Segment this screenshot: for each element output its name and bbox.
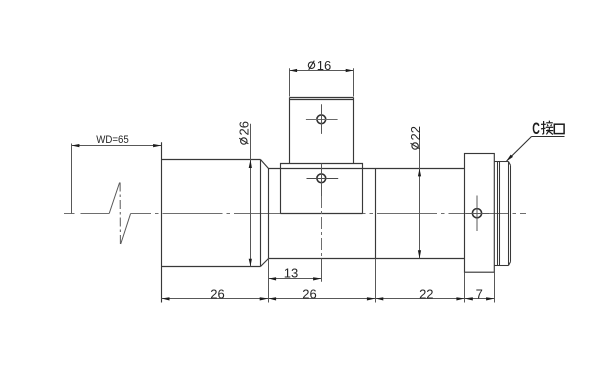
optical axis centerline main: [131, 213, 526, 215]
ring chamfer top: [509, 162, 511, 166]
extension line at x=494.5: [494, 273, 496, 303]
svg-text:16: 16: [317, 58, 331, 73]
mid+rear body outline: [269, 169, 465, 259]
label C-mount leader: [507, 137, 565, 162]
joint line mid/rear: [375, 169, 377, 259]
svg-text:22: 22: [419, 286, 433, 301]
svg-text:13: 13: [284, 266, 298, 281]
ring chamfer bottom: [509, 262, 511, 266]
extension line at x=268.5: [268, 259, 270, 303]
label C-mount text: kou (drawn glyph): [554, 124, 564, 133]
chain arrows: [162, 297, 495, 300]
clamp block: [281, 164, 363, 214]
object plane line: [71, 144, 73, 214]
dimension phi26 line: [250, 124, 252, 267]
label C-mount text: C: [532, 118, 540, 137]
upper block: [290, 98, 354, 164]
svg-text:26: 26: [237, 121, 252, 135]
label WD=65: [96, 134, 129, 146]
dimension phi16 line: [290, 70, 354, 72]
label C-mount text: jie (drawn glyph): [541, 121, 553, 135]
dimension 13 line: [269, 278, 322, 280]
flange setscrew crosshair: [466, 196, 489, 232]
svg-text:26: 26: [210, 286, 224, 301]
bottom dimension chain line: [162, 298, 495, 300]
screw axis extension to 13-dim: [321, 196, 323, 259]
label phi16: [308, 58, 331, 73]
optical axis centerline left segment: [64, 213, 109, 215]
svg-text:C: C: [532, 118, 540, 137]
svg-text:7: 7: [476, 286, 483, 301]
WD arrow left: [72, 144, 80, 147]
svg-text:WD=65: WD=65: [96, 134, 129, 146]
extension line at x=375.5: [375, 259, 377, 303]
label phi26 (rotated): [237, 121, 252, 144]
phi16 extension lines: [290, 68, 354, 96]
dimension phi22 line: [419, 131, 421, 259]
flange: [465, 154, 495, 273]
C-mount rings: [495, 162, 511, 266]
chamfer top: [261, 160, 269, 169]
extension line at x=464.5: [464, 273, 466, 303]
front barrel outline: [162, 142, 269, 302]
svg-text:22: 22: [408, 126, 423, 140]
label phi22 (rotated): [408, 126, 423, 149]
dimension WD=65 line: [72, 145, 162, 147]
setscrew crosshair upper: [306, 104, 338, 134]
break symbol on optical axis: [109, 183, 130, 245]
WD arrow right: [153, 144, 161, 147]
setscrew crosshair lower: [307, 164, 339, 197]
chamfer bottom: [261, 259, 269, 267]
svg-text:26: 26: [302, 286, 316, 301]
